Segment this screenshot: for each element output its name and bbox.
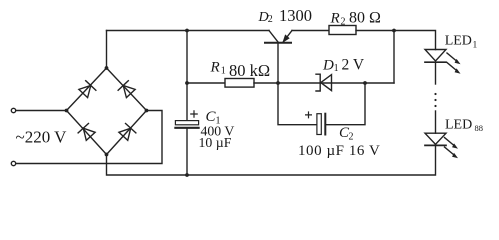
node bridge left [65,109,69,113]
svg-text:1: 1 [221,66,226,77]
resistor R2 body [329,26,356,35]
wire bridge arm bottom-right [107,111,147,155]
wire node row R1 left [187,82,225,84]
wire top rail right segment to LED branch [356,31,436,50]
svg-text:1: 1 [473,41,478,51]
node rail-C1 [185,29,189,33]
svg-text:~220 V: ~220 V [16,128,68,147]
svg-text:1: 1 [334,63,339,74]
svg-text:D: D [322,58,334,74]
terminal AC input bottom [11,161,15,165]
LED88 emission arrows [445,138,456,147]
node bridge top [105,66,109,70]
diode bridge D-topright [118,81,136,99]
node D1-C2 junction B [363,81,367,85]
LED88 triangle [425,133,446,144]
LED1 emission arrows [447,53,458,62]
svg-text:LED: LED [445,34,472,49]
svg-text:100 µF 16 V: 100 µF 16 V [298,143,380,159]
node bottom rail C1 [185,173,189,177]
node bridge bottom [105,153,109,157]
wire T1 to bridge left node [16,110,67,112]
zener diode D1 cathode bar [316,74,320,91]
svg-text:R: R [210,60,220,76]
svg-text:LED: LED [445,118,472,133]
capacitor C2 plate right [324,114,326,135]
wire C2 loop bottom right and up [326,83,365,125]
svg-text:10 µF: 10 µF [199,135,232,150]
wire branch C1 upper [186,31,188,123]
wire top rail left segment [107,30,270,32]
node rail-R2 output [392,29,396,33]
svg-text:80 kΩ: 80 kΩ [229,61,270,80]
LED1 cathode bar [425,61,446,63]
plus sign C2 [306,112,312,118]
svg-text:2: 2 [349,132,354,143]
svg-text:R: R [330,11,340,27]
LED string ellipsis dots [434,93,436,95]
wire branch C1 lower [186,129,188,175]
zener diode D1 triangle [321,75,332,91]
wire LED1 to ellipsis [435,62,437,84]
svg-text:2: 2 [268,14,273,25]
diode bridge D-bottomright [118,123,136,141]
transistor Q D2 base bar [265,42,291,44]
transistor Q D2 collector lead [269,31,278,43]
svg-text:80 Ω: 80 Ω [349,10,381,27]
transistor Q D2 emitter lead with arrow [284,31,293,42]
wire ellipsis to LED88 [435,111,437,133]
wire bridge top node to rail [106,31,108,69]
svg-text:2 V: 2 V [342,57,365,74]
plus sign C1 [191,111,197,117]
transistor Q D2 base lead [277,44,279,83]
node bridge right [145,109,149,113]
wire bridge arm top-right [107,68,147,111]
diode bridge D-topleft [78,81,96,99]
resistor R1 body [225,79,254,88]
terminal AC input top [11,108,15,112]
wire node row R1 right to D1 row [254,82,394,84]
wire LED88 cathode to bottom rail to bridge bottom [107,145,436,175]
LED88 cathode bar [425,144,446,146]
capacitor C1 plate top (hollow) [175,121,198,125]
capacitor C2 plate left (hollow) [317,114,321,135]
svg-text:2: 2 [341,17,346,28]
diode bridge D-bottomleft [78,123,96,141]
wire bridge arm top-left [67,68,107,111]
wire T2 to bridge right node [16,111,162,164]
LED1 triangle [425,50,446,62]
svg-text:1300: 1300 [279,6,312,25]
capacitor C1 plate bottom [175,127,198,129]
wire top rail middle segment [292,30,329,32]
wire R2 output down to D1 row [393,31,395,84]
node base-R1 junction A [276,81,280,85]
svg-text:88: 88 [475,123,484,133]
wire C2 loop left and bottom [278,83,317,125]
wire bridge arm bottom-left [67,111,107,155]
node R1 left [185,81,189,85]
